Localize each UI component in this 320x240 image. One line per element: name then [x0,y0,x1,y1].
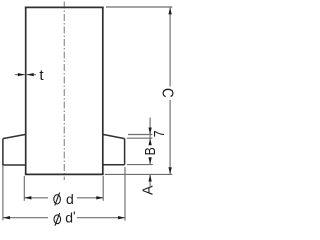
dimension t arrow left [18,73,25,76]
flange left outer edge [2,139,4,165]
flange right outer edge [124,139,126,165]
dimension 7 line [149,118,151,145]
dimension t arrow right [27,73,34,76]
dimension A arrow up [148,175,151,182]
flange left bottom [2,164,26,166]
dimension phi-d line left [25,197,49,199]
dimension A line [149,175,151,187]
dimension phi-d line right [77,197,103,199]
label phi (of phi-d') [54,213,61,226]
dimension B line lower [149,157,151,164]
extension line tube bottom [105,173,173,175]
flange right bottom [102,164,125,166]
cylinder top edge [25,6,104,8]
dimension t leader right [27,74,36,76]
dimension phi-d arrow right [96,196,103,199]
svg-text:d: d [65,210,73,226]
dimension C line lower [169,100,171,174]
flange right slope [103,134,125,138]
top extension line [106,6,172,8]
flange left slope [3,134,26,138]
dimension phi-d arrow left [24,196,31,199]
extension line phi-d left [23,176,25,201]
dimension phi-d' arrow left [3,216,10,219]
dimension phi-d' line left [3,217,48,219]
dimension 7/B shared arrow up [148,138,151,145]
extension line phi-d' right [124,167,126,221]
extension line flange top at wall [128,134,152,136]
left wall [25,7,27,174]
svg-text:A: A [140,185,156,195]
dimension t leader left [15,74,25,76]
dimension 7 arrow down [148,128,151,135]
centerline [63,2,65,181]
svg-text:C: C [158,88,175,98]
svg-text:d: d [66,191,74,207]
dimension phi-d' line right [77,217,125,219]
extension line phi-d' left [2,165,4,220]
extension line flange bottom [127,164,153,166]
dimension phi-d' arrow right [118,216,125,219]
right wall [102,7,104,174]
svg-text:': ' [73,208,76,224]
dimension C arrow bottom [168,167,171,174]
svg-text:7: 7 [151,130,167,137]
svg-text:B: B [142,147,158,155]
extension line flange outer top [127,137,153,139]
dimension C line upper [169,8,171,87]
extension line phi-d right [102,176,104,201]
dimension B arrow down [148,157,151,164]
label phi (of phi-d) [54,193,61,206]
tube bottom edge [25,173,104,175]
dimension C arrow top [168,7,171,14]
